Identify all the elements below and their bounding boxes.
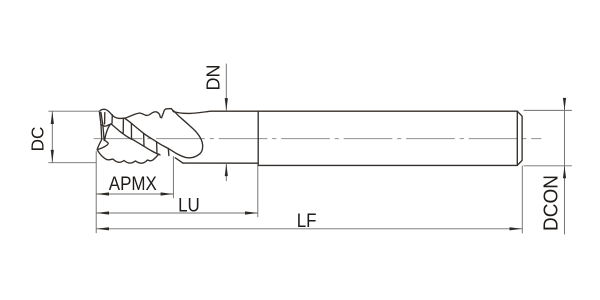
APMX dimension line	[96, 193, 173, 195]
svg-text:LF: LF	[297, 209, 317, 231]
shank step at neck	[257, 111, 259, 165]
serration rib F	[156, 142, 158, 154]
DN arrow up	[225, 163, 228, 176]
APMX right extension line	[172, 157, 174, 198]
LU arrow right	[245, 211, 258, 214]
LU right extension line	[257, 166, 259, 217]
left extension line (APMX/LU/LF)	[95, 152, 97, 233]
DC extension line bottom	[49, 162, 97, 164]
DN arrow down	[225, 98, 228, 111]
head left corner beak	[97, 140, 108, 150]
DCON dimension line	[564, 99, 566, 234]
upper diagonal land edge + flute oval face	[125, 110, 203, 157]
shank end chamfer	[517, 111, 522, 165]
serration rib D	[130, 123, 132, 139]
DN dimension line lower	[225, 164, 227, 181]
flute runout to neck bottom	[175, 158, 183, 163]
LU arrow left	[96, 211, 109, 214]
serration rib E	[143, 133, 145, 146]
LF arrow right	[510, 227, 523, 230]
LF arrow left	[96, 227, 109, 230]
svg-text:DC: DC	[27, 127, 48, 152]
neck top edge	[173, 111, 258, 113]
centerline	[94, 138, 541, 140]
head bottom serrated edge	[97, 150, 159, 164]
land lower edge rise from corner	[105, 124, 112, 141]
DCON extension line bottom	[524, 165, 572, 167]
serration rib G	[167, 148, 170, 155]
svg-text:LU: LU	[178, 193, 200, 215]
APMX arrow left	[96, 192, 109, 195]
DC arrow up	[51, 111, 54, 124]
LU dimension line	[96, 212, 257, 214]
LF dimension line	[96, 228, 522, 230]
head left face edges	[97, 112, 104, 150]
head top edge	[99, 109, 173, 119]
DCON arrow up (outside bottom)	[563, 166, 566, 178]
lower diagonal land edge merging into neck bottom	[101, 124, 160, 155]
APMX arrow right	[161, 192, 174, 195]
serration rib A	[104, 113, 106, 124]
LF right extension line	[521, 166, 523, 233]
serration rib C	[122, 119, 124, 133]
svg-text:APMX: APMX	[109, 172, 157, 194]
DC arrow down	[51, 150, 54, 163]
neck bottom edge	[183, 162, 258, 164]
svg-text:DN: DN	[204, 65, 224, 91]
DC dimension line	[51, 111, 53, 162]
svg-text:DCON: DCON	[540, 175, 563, 231]
DN dimension line upper	[225, 64, 227, 111]
DCON extension line top	[524, 109, 572, 111]
serration rib B	[111, 115, 113, 124]
DC extension line top	[49, 110, 100, 112]
shank body outline	[258, 111, 517, 165]
DCON arrow down (outside top)	[563, 98, 566, 110]
